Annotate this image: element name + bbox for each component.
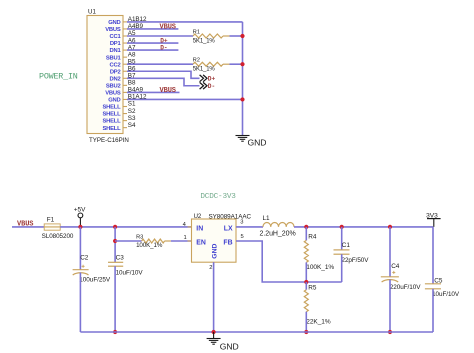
svg-text:SHELL: SHELL	[102, 112, 121, 118]
svg-text:DCDC-3V3: DCDC-3V3	[200, 193, 236, 201]
resistor R5	[305, 282, 307, 290]
wire DP1 A6	[127, 42, 178, 44]
wire C1 bottom	[341, 254, 343, 282]
U1 pin B8 (SBU2) stub	[123, 84, 127, 86]
wire VBUS B4A9	[127, 91, 180, 93]
svg-text:GND: GND	[108, 98, 120, 104]
svg-text:SBU2: SBU2	[106, 83, 121, 89]
svg-text:10uF/10V: 10uF/10V	[116, 270, 144, 277]
svg-text:SY8089A1AAC: SY8089A1AAC	[209, 213, 252, 220]
svg-text:22K_1%: 22K_1%	[306, 319, 331, 326]
junction C1 top	[340, 225, 344, 229]
svg-text:VBUS: VBUS	[105, 27, 121, 33]
svg-text:3: 3	[240, 220, 243, 226]
svg-text:5: 5	[241, 234, 244, 240]
capacitor C4 (polarized)	[389, 227, 391, 277]
wire DP2 B6 to D+ port	[127, 71, 200, 78]
junction GND/bus	[240, 97, 244, 101]
svg-text:CC2: CC2	[110, 62, 121, 68]
svg-text:U1: U1	[88, 9, 96, 16]
wire R1 to bus	[230, 35, 243, 37]
junction C4 top	[388, 225, 392, 229]
svg-text:R1: R1	[193, 29, 200, 35]
wire R4 bottom	[305, 262, 307, 282]
svg-text:R4: R4	[308, 234, 317, 241]
capacitor C2 (polarized)	[73, 269, 89, 271]
wire C5 bottom	[432, 289, 434, 332]
ground symbol (bottom)	[213, 332, 215, 338]
wire FB net	[236, 241, 342, 282]
wire C3 branch	[114, 227, 116, 262]
wire R5 bottom	[305, 312, 307, 332]
U2 pin stub LX	[236, 226, 240, 228]
junction R1/bus	[240, 34, 244, 38]
U2 pin stub GND pin2	[213, 262, 215, 266]
wire U2 GND pin 2	[213, 262, 215, 332]
svg-text:100uF/25V: 100uF/25V	[79, 277, 111, 284]
junction +5V/C2	[78, 225, 82, 229]
wire C4 bottom	[389, 280, 391, 333]
svg-text:A8: A8	[128, 51, 136, 58]
wire C2 branch	[79, 227, 81, 270]
connector U1 body	[87, 16, 123, 134]
U2 pin stub EN	[188, 240, 192, 242]
svg-text:5K1_1%: 5K1_1%	[193, 38, 216, 44]
svg-text:GND: GND	[212, 244, 219, 259]
wire C2 to rail	[79, 273, 81, 333]
svg-text:R5: R5	[308, 285, 317, 292]
capacitor C1	[341, 227, 343, 250]
ground symbol (top)	[236, 135, 250, 137]
junction EN tap	[113, 239, 117, 243]
svg-text:B8: B8	[128, 80, 136, 87]
svg-text:D+: D+	[208, 76, 216, 83]
resistor R1	[193, 34, 223, 38]
U1 pin A6 (DP1) stub	[123, 42, 127, 44]
power port 3V3 bar	[427, 218, 441, 220]
junction C3 bottom	[113, 330, 117, 334]
wire C3 to rail	[114, 266, 116, 332]
svg-text:SL0805200: SL0805200	[42, 233, 74, 240]
offsheet connector D+	[200, 75, 207, 82]
svg-text:3V3: 3V3	[426, 212, 438, 219]
U1 pin B7 (DN2) stub	[123, 77, 127, 79]
svg-text:1: 1	[183, 235, 186, 241]
svg-text:2: 2	[209, 265, 212, 271]
offsheet connector D-	[200, 82, 207, 89]
svg-text:S1: S1	[128, 101, 136, 108]
svg-text:LX: LX	[224, 225, 233, 232]
capacitor C5	[432, 227, 434, 284]
svg-text:VBUS: VBUS	[160, 87, 176, 95]
power port +5V	[78, 213, 83, 218]
junction R2/bus	[240, 62, 244, 66]
U2 pin stub FB	[236, 240, 240, 242]
wire CC1 to R1	[127, 35, 193, 37]
wire DN2 B7 to D- port	[127, 78, 200, 85]
U1 pin S3 (SHELL) stub	[123, 120, 127, 122]
op-chip U2 body	[192, 219, 237, 262]
svg-text:TYPE-C16PIN: TYPE-C16PIN	[89, 137, 129, 144]
U1 pin A1B12 (GND) stub	[123, 21, 127, 23]
svg-text:GND: GND	[220, 342, 239, 352]
svg-text:SHELL: SHELL	[102, 119, 121, 125]
svg-text:100K_1%: 100K_1%	[136, 242, 163, 249]
svg-text:IN: IN	[196, 225, 203, 232]
wire VBUS to F1	[12, 226, 44, 228]
U1 pin B5 (CC2) stub	[123, 63, 127, 65]
svg-text:C5: C5	[434, 278, 443, 285]
svg-text:C4: C4	[391, 263, 400, 270]
svg-text:SHELL: SHELL	[102, 126, 121, 132]
U1 pin B4A9 (VBUS) stub	[123, 91, 127, 93]
wire CC2 to R2	[127, 63, 193, 65]
svg-text:GND: GND	[108, 20, 120, 26]
svg-text:C3: C3	[116, 255, 125, 262]
U1 pin B6 (DP2) stub	[123, 70, 127, 72]
fuse F1	[44, 224, 60, 230]
svg-text:SBU1: SBU1	[106, 55, 122, 61]
svg-text:SHELL: SHELL	[102, 105, 121, 111]
inductor L1	[263, 223, 294, 227]
wire R2 to bus	[230, 63, 243, 65]
svg-text:C2: C2	[80, 255, 89, 262]
U1 pin A8 (SBU1) stub	[123, 56, 127, 58]
svg-text:D+: D+	[160, 38, 168, 45]
svg-text:S4: S4	[128, 122, 136, 129]
wire EN tap to R3	[115, 240, 142, 242]
svg-text:GND: GND	[248, 137, 267, 147]
junction R4/R5/FB	[304, 280, 308, 284]
svg-text:R2: R2	[193, 58, 200, 64]
resistor R2	[193, 62, 223, 66]
U1 pin A5 (CC1) stub	[123, 35, 127, 37]
svg-text:DP1: DP1	[110, 41, 122, 47]
bottom GND rail	[80, 331, 433, 333]
svg-text:S3: S3	[128, 115, 136, 122]
svg-text:DN2: DN2	[110, 76, 121, 82]
wire LX to L1	[236, 226, 263, 228]
U1 pin S4 (SHELL) stub	[123, 127, 127, 129]
wire VBUS A4B9	[127, 28, 178, 30]
svg-text:CC1: CC1	[110, 34, 122, 40]
svg-text:D-: D-	[208, 83, 215, 90]
svg-text:D-: D-	[160, 45, 167, 52]
svg-text:L1: L1	[263, 215, 271, 222]
capacitor C3	[108, 261, 123, 263]
wire F1 to U2 IN rail	[60, 226, 191, 228]
resistor R3	[142, 239, 165, 243]
svg-text:C1: C1	[342, 242, 351, 249]
U1 pin A7 (DN1) stub	[123, 49, 127, 51]
junction GND pin	[212, 330, 216, 334]
svg-text:10uF/10V: 10uF/10V	[432, 291, 460, 298]
svg-text:22pF/50V: 22pF/50V	[342, 257, 370, 264]
svg-text:FB: FB	[223, 240, 232, 247]
wire R4 top lead	[305, 227, 307, 241]
junction C4 bottom	[388, 330, 392, 334]
svg-text:VBUS: VBUS	[160, 23, 176, 31]
svg-text:100K_1%: 100K_1%	[306, 264, 334, 271]
wire R3 to EN	[171, 240, 192, 242]
svg-text:POWER_IN: POWER_IN	[39, 72, 78, 82]
svg-text:+5V: +5V	[74, 206, 86, 213]
svg-text:S2: S2	[128, 108, 136, 115]
U1 pin S2 (SHELL) stub	[123, 113, 127, 115]
U2 pin stub IN	[188, 226, 192, 228]
junction R5 bottom	[304, 330, 308, 334]
U1 pin B1A12 (GND) stub	[123, 98, 127, 100]
wire DN1 A7	[127, 49, 178, 51]
svg-text:DP2: DP2	[110, 69, 121, 75]
wire L1 to 3V3	[294, 226, 433, 228]
svg-text:DN1: DN1	[110, 48, 122, 54]
U1 pin S1 (SHELL) stub	[123, 106, 127, 108]
GND bus vertical	[242, 22, 244, 135]
svg-text:EN: EN	[196, 240, 206, 247]
svg-text:VBUS: VBUS	[105, 91, 121, 97]
junction R4 top	[304, 225, 308, 229]
svg-text:2.2uH_20%: 2.2uH_20%	[260, 231, 296, 238]
resistor R4	[304, 240, 308, 262]
U1 pin A4B9 (VBUS) stub	[123, 28, 127, 30]
svg-text:F1: F1	[47, 217, 55, 224]
svg-text:R3: R3	[136, 235, 143, 241]
junction C3 top	[113, 225, 117, 229]
svg-text:5K1_1%: 5K1_1%	[193, 67, 216, 73]
svg-text:220uF/10V: 220uF/10V	[390, 284, 422, 291]
wire GND B1A12 to bus	[127, 98, 243, 100]
wire GND A1B12 to bus	[127, 21, 243, 23]
svg-text:U2: U2	[194, 214, 202, 220]
